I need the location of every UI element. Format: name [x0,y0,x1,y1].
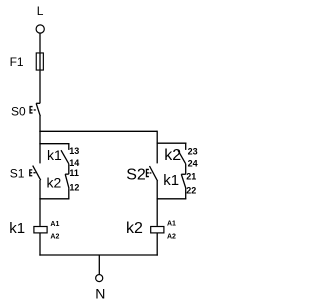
contact k1 13-14 (NO) [47,143,69,164]
wire [39,71,41,104]
wire [185,189,187,199]
node N [95,285,105,301]
svg-text:k1: k1 [163,172,179,189]
pin 23 [188,147,198,157]
wire [156,181,158,226]
svg-text:A2: A2 [50,233,59,240]
pin A2 [50,233,59,240]
wire (left tap) [39,143,69,145]
node L [37,4,44,18]
pushbutton S1 (NO) [10,166,41,181]
svg-text:12: 12 [69,182,79,192]
svg-text:k2: k2 [126,220,143,237]
svg-text:A1: A1 [50,221,59,228]
wire (left join) [39,198,69,200]
contact k2 23-24 (NO) [164,143,186,164]
svg-text:23: 23 [188,147,198,157]
svg-text:k1: k1 [47,147,62,163]
terminal L [36,25,44,33]
wire [156,131,158,164]
svg-text:L: L [37,4,44,18]
pin 22 [186,185,196,195]
wire [39,33,41,52]
pin 14 [69,158,79,168]
svg-text:N: N [95,285,105,301]
wire [39,233,41,256]
pin A1 [50,221,59,228]
svg-text:A1: A1 [167,221,176,228]
wire (bottom bus N) [39,254,158,256]
contact k1 21-22 (NC) [163,172,186,189]
svg-text:13: 13 [69,146,79,156]
wire (right join) [157,198,187,200]
wire [156,233,158,256]
svg-text:11: 11 [69,168,79,178]
svg-text:k2: k2 [47,174,62,190]
svg-text:A2: A2 [167,233,176,240]
terminal N [96,275,103,282]
svg-text:22: 22 [186,185,196,195]
wire [98,255,100,275]
svg-text:21: 21 [186,172,196,182]
svg-text:k1: k1 [9,220,25,237]
svg-text:k2: k2 [164,147,181,164]
fuse F1 [10,52,44,70]
wire [39,180,41,226]
pin A2 [167,233,176,240]
wire (top bus) [39,130,157,132]
pin 12 [69,182,79,192]
wire [68,164,70,174]
svg-text:S1: S1 [10,166,25,180]
svg-text:24: 24 [188,158,198,168]
pin A1 [167,221,176,228]
pin 13 [69,146,79,156]
pushbutton S2 (NO) [126,166,157,183]
pushbutton S0 (NC) [11,103,40,118]
svg-text:14: 14 [69,158,79,168]
wire [39,116,41,132]
svg-text:S0: S0 [11,104,26,118]
wire [68,188,70,198]
coil k1 [9,220,47,237]
pin 24 [188,158,198,168]
wire (right tap) [157,142,187,144]
pin 11 [69,168,79,178]
wire [39,131,41,163]
wire [185,164,187,174]
svg-text:F1: F1 [10,55,24,69]
pin 21 [186,172,196,182]
svg-text:S2: S2 [126,166,146,183]
coil k2 [126,220,164,237]
contact k2 11-12 (NC) [47,174,70,190]
